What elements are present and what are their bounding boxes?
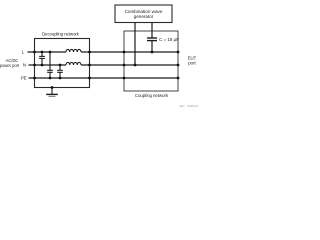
capacitor C2 (L to PE): [47, 52, 53, 78]
svg-text:PE: PE: [21, 75, 27, 80]
wire N (left segment): [29, 64, 67, 66]
wire L (right segment to EUT): [81, 51, 178, 53]
svg-text:port: port: [188, 61, 196, 66]
node L / decoupling box right: [88, 51, 91, 54]
svg-text:power port: power port: [0, 63, 20, 68]
node PE / decoupling box right: [88, 77, 91, 80]
coupling network box: [124, 31, 178, 98]
decoupling network box: [35, 32, 90, 88]
node N / decoupling box right: [88, 64, 91, 67]
node C1 top on L: [41, 51, 44, 54]
label EUT port: [188, 55, 197, 65]
node C3 bottom on PE: [59, 77, 62, 80]
node ground junction: [51, 86, 54, 89]
svg-text:Decoupling network: Decoupling network: [42, 32, 80, 37]
wire PE: [29, 77, 179, 79]
capacitor C3 (N to PE): [57, 65, 63, 78]
node C3 top on N: [59, 64, 62, 67]
svg-text:IEC 1049/14: IEC 1049/14: [180, 104, 199, 108]
wire N (right segment to EUT): [81, 64, 178, 66]
node C1 bottom on N: [41, 64, 44, 67]
node PE / EUT port: [177, 77, 180, 80]
node coupling capacitor on L: [151, 51, 154, 54]
inductor N-line choke: [66, 62, 81, 65]
node C2 bottom on PE: [49, 77, 52, 80]
node N / coupling box left: [123, 64, 126, 67]
node N / decoupling box left: [33, 64, 36, 67]
svg-text:Coupling network: Coupling network: [135, 93, 169, 98]
wire generator return to N: [134, 23, 136, 66]
capacitor C1 (L to N): [39, 52, 45, 65]
node N / EUT port: [177, 64, 180, 67]
combination wave generator U1 box: [115, 5, 172, 23]
node L / EUT port: [177, 51, 180, 54]
svg-text:generator: generator: [134, 14, 154, 19]
node PE / decoupling box left: [33, 77, 36, 80]
inductor L-line choke: [66, 49, 81, 52]
capacitor C = 18 uF (generator output to L): [147, 23, 179, 53]
node C2 top on L: [49, 51, 52, 54]
node L / decoupling box left: [33, 51, 36, 54]
node PE / coupling box left: [123, 77, 126, 80]
svg-text:N: N: [23, 62, 26, 67]
svg-text:C = 18 µF: C = 18 µF: [159, 37, 179, 42]
label AC/DC power port: [0, 58, 20, 68]
ground (reference earth): [46, 88, 58, 97]
node generator return on N: [134, 64, 137, 67]
wire L (left segment): [28, 51, 67, 53]
node L / coupling box left: [123, 51, 126, 54]
